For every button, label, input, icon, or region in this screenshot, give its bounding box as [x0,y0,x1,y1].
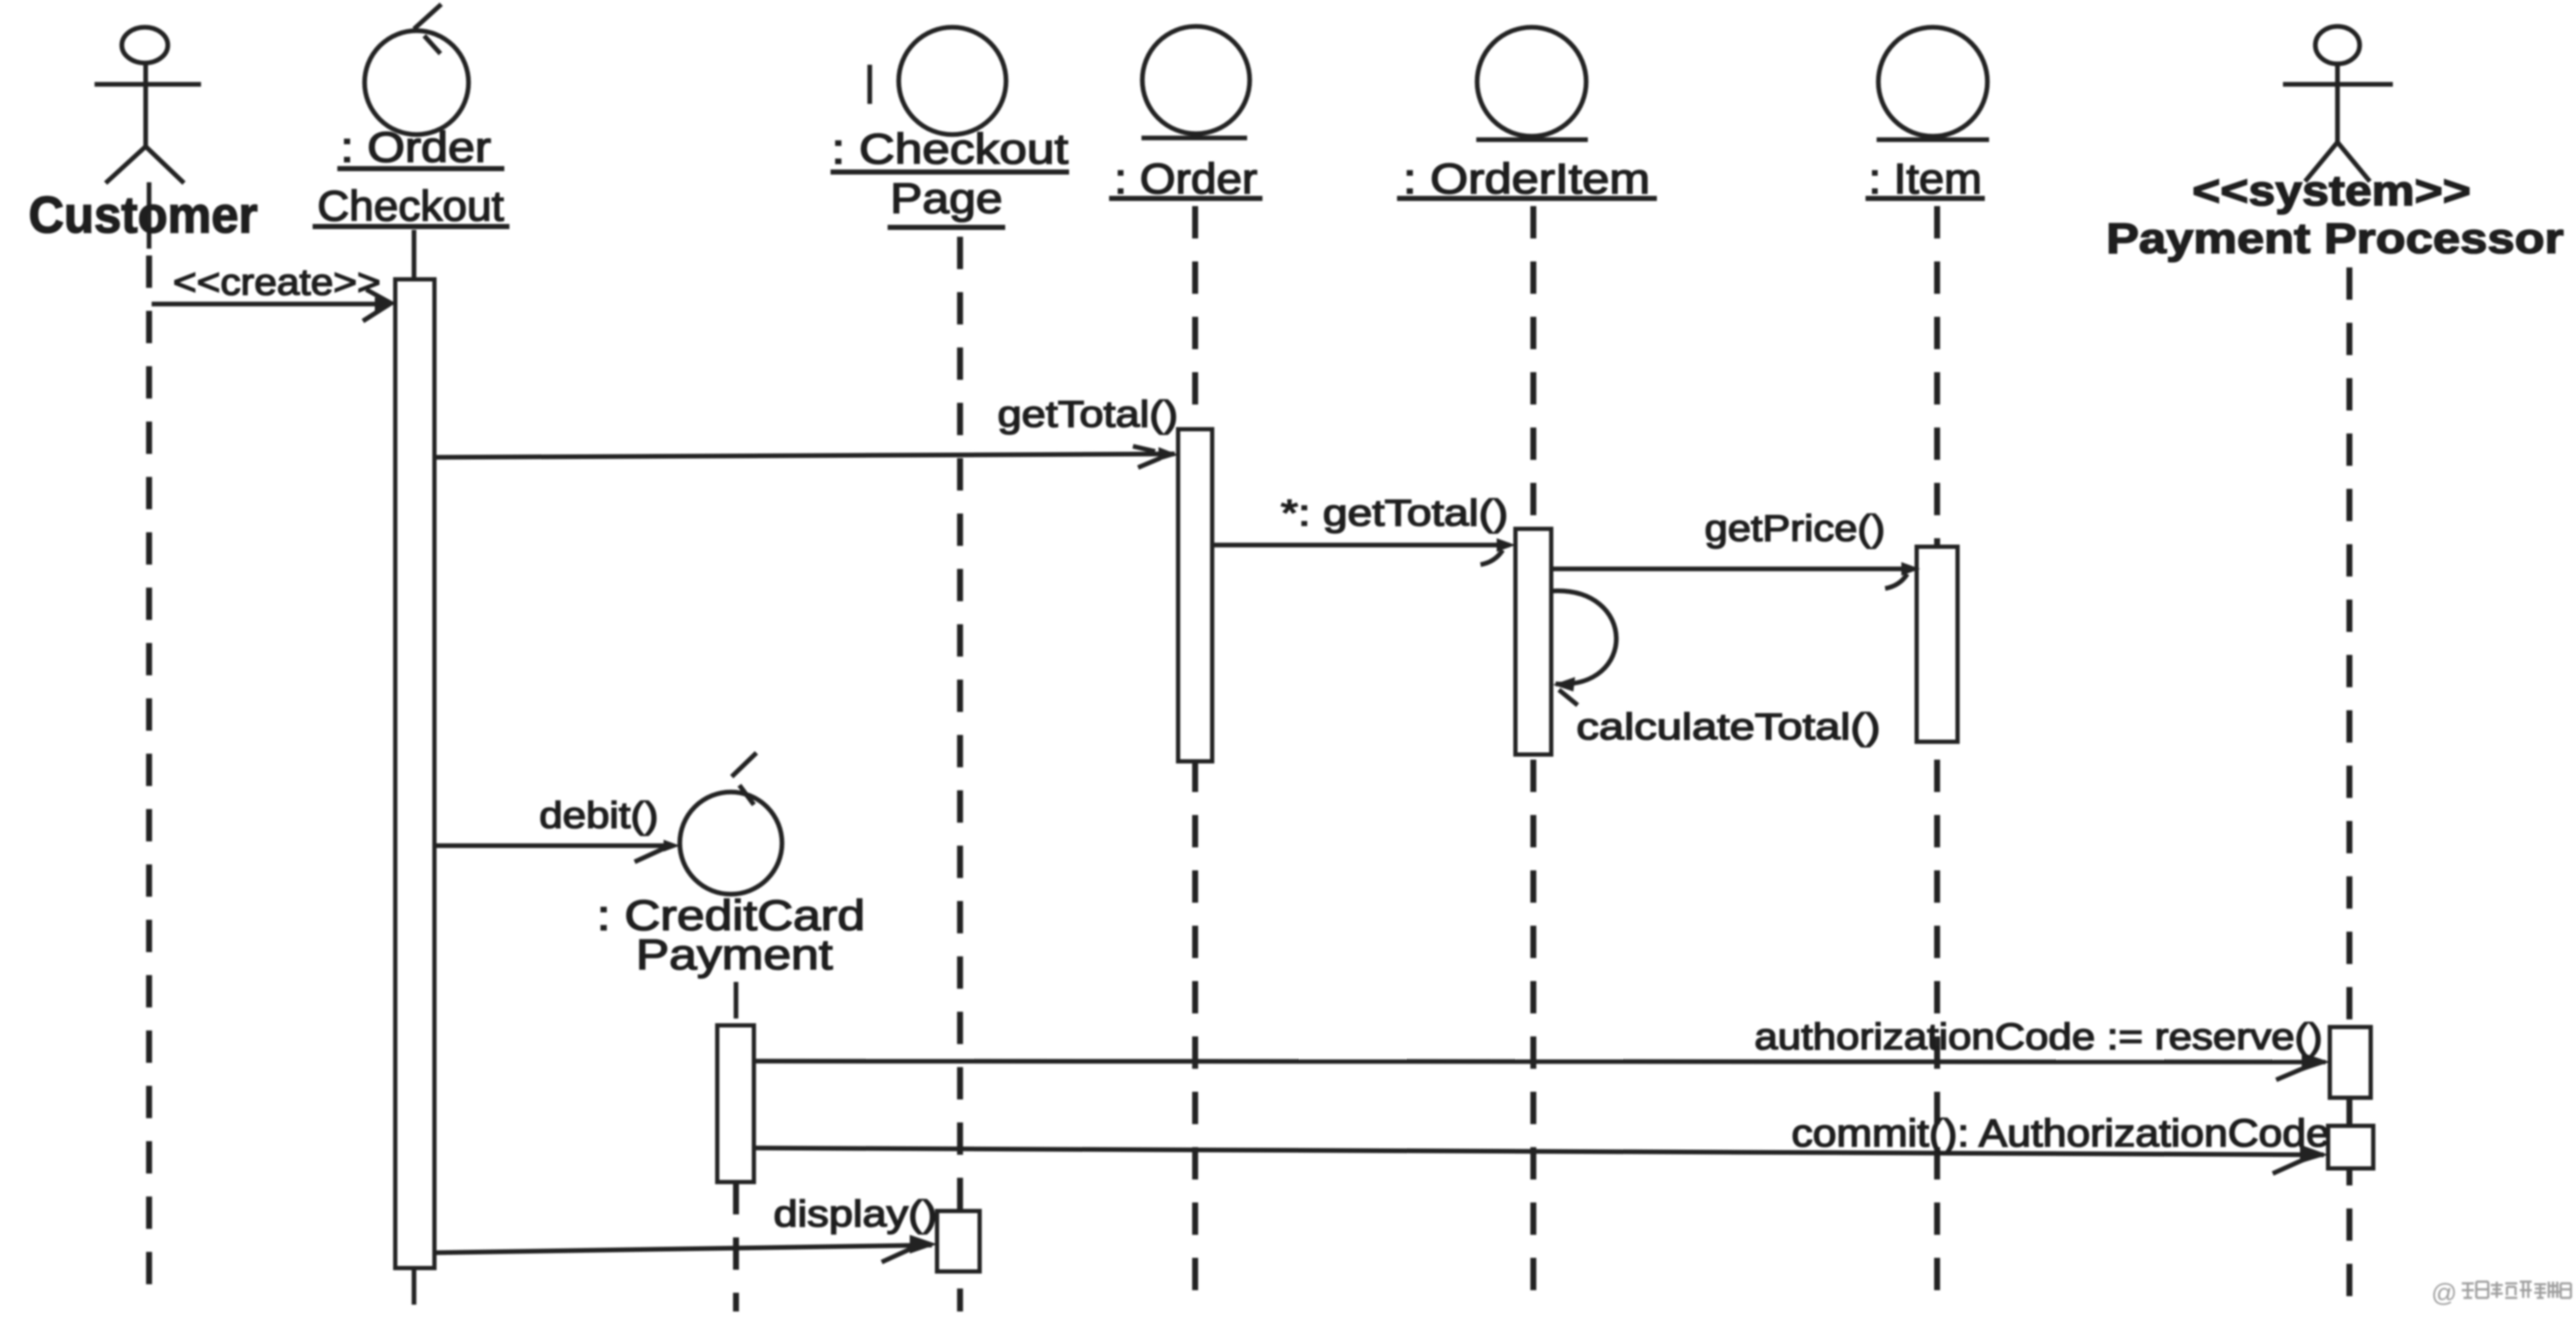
svg-text:Checkout: Checkout [318,182,504,230]
svg-text:: Order: : Order [341,123,492,171]
svg-text:authorizationCode := reserve(): authorizationCode := reserve() [1755,1016,2323,1058]
svg-text:commit(): AuthorizationCode: commit(): AuthorizationCode [1791,1111,2330,1155]
svg-text:: Checkout: : Checkout [831,125,1068,173]
svg-text:@: @ [2431,1279,2457,1307]
svg-text:calculateTotal(): calculateTotal() [1577,706,1881,748]
svg-text:*: getTotal(): *: getTotal() [1281,492,1509,534]
svg-text:: Item: : Item [1869,155,1982,203]
svg-text:<<create>>: <<create>> [173,261,381,303]
svg-text:: OrderItem: : OrderItem [1403,155,1650,203]
svg-text:Page: Page [890,175,1003,222]
svg-text:: Order: : Order [1114,155,1257,203]
svg-text:<<system>>: <<system>> [2193,167,2471,215]
svg-text:Payment Processor: Payment Processor [2107,215,2564,262]
svg-text:getPrice(): getPrice() [1705,508,1885,549]
svg-text:Customer: Customer [29,187,258,244]
svg-text:getTotal(): getTotal() [998,393,1178,435]
svg-text:debit(): debit() [539,795,658,836]
svg-text:display(): display() [773,1193,937,1235]
svg-text:Payment: Payment [636,931,833,979]
